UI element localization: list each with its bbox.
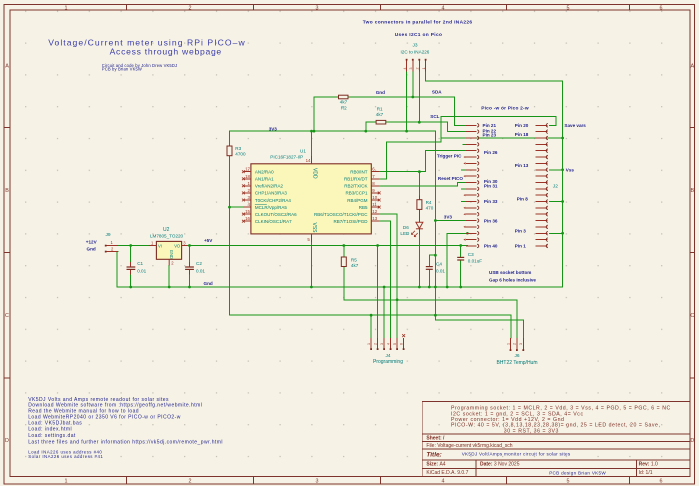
connector J6 DHT22 — [496, 338, 537, 366]
svg-text:Pin 40: Pin 40 — [484, 244, 498, 249]
svg-text:Load: settings.dat: Load: settings.dat — [28, 433, 76, 439]
net label pico pin texts left column — [483, 123, 498, 249]
svg-text:RB3/CCP1: RB3/CCP1 — [345, 191, 368, 196]
op-amp U1 PIC16F1827 body — [251, 148, 371, 234]
resistor R4 — [417, 200, 434, 211]
svg-text:D: D — [690, 438, 694, 444]
wire 3V3 rail — [230, 130, 436, 132]
svg-text:Reset PICO: Reset PICO — [438, 176, 463, 181]
svg-text:R4: R4 — [426, 200, 432, 205]
svg-text:PIC16F1827-I/P: PIC16F1827-I/P — [270, 154, 303, 159]
svg-text:Pin 20: Pin 20 — [515, 123, 529, 128]
svg-text:VDD: VDD — [311, 168, 317, 179]
svg-text:J3: J3 — [413, 43, 418, 49]
svg-text:Solar INA226 uses address #41: Solar INA226 uses address #41 — [28, 454, 103, 459]
svg-text:Pin 31: Pin 31 — [484, 184, 498, 189]
svg-text:1: 1 — [65, 5, 68, 11]
connector J9 power in — [86, 232, 118, 253]
svg-text:PCB by Brian VK5W: PCB by Brian VK5W — [102, 67, 142, 72]
svg-text:18: 18 — [245, 174, 250, 179]
wire C2 vertical — [189, 246, 191, 263]
svg-text:RB7/T1OSI/PGD: RB7/T1OSI/PGD — [333, 219, 368, 224]
wire C4 vertical — [429, 255, 435, 266]
connector J3 I2C — [401, 43, 430, 72]
svg-text:Last three files and further i: Last three files and further information… — [28, 439, 223, 445]
wire LED D6 cathode to ground rail — [418, 235, 420, 288]
wire U2 GND pin to ground rail — [168, 266, 170, 288]
capacitor C1 — [127, 261, 147, 275]
svg-text:11: 11 — [372, 202, 377, 207]
wire R1 left to 3V3 rail — [366, 122, 376, 131]
svg-text:RB5: RB5 — [359, 205, 368, 210]
svg-text:Programming: Programming — [373, 359, 403, 365]
title block — [422, 401, 690, 476]
svg-text:4k7: 4k7 — [340, 100, 348, 105]
svg-text:Size: A4: Size: A4 — [426, 462, 445, 468]
svg-text:5: 5 — [393, 343, 397, 345]
svg-text:4: 4 — [442, 5, 445, 11]
regulator U2 LM7805 — [149, 227, 188, 265]
svg-text:Load: index.html: Load: index.html — [28, 427, 72, 433]
svg-text:14: 14 — [306, 158, 311, 163]
svg-text:Id: 1/1: Id: 1/1 — [639, 470, 653, 476]
svg-text:13: 13 — [372, 216, 377, 221]
svg-text:30 = RST, 36 = 3V3: 30 = RST, 36 = 3V3 — [504, 428, 559, 434]
svg-text:R5: R5 — [351, 257, 357, 262]
svg-text:4k7: 4k7 — [376, 112, 384, 117]
svg-text:4: 4 — [442, 479, 445, 485]
svg-text:17: 17 — [245, 167, 250, 172]
wire MCLR bottom run to J6 pin1 — [230, 315, 512, 338]
wire R5 pullup top — [343, 246, 345, 258]
svg-text:Access through webpage: Access through webpage — [110, 47, 222, 57]
svg-text:CLKOUT/OSC2/RA6: CLKOUT/OSC2/RA6 — [255, 212, 297, 217]
svg-text:5: 5 — [567, 5, 570, 11]
svg-text:MCLR/Vpp/RA5: MCLR/Vpp/RA5 — [255, 205, 288, 210]
wire 3V3 vertical distribution — [435, 131, 523, 338]
svg-text:Vss: Vss — [566, 168, 575, 173]
svg-text:B: B — [690, 188, 694, 194]
wire IC pin7 RB1 up and right — [379, 142, 441, 179]
wire stubs left col rows 4 8 11 13 — [463, 143, 470, 145]
LED D6 — [412, 222, 423, 237]
svg-text:RB2/TX/CK: RB2/TX/CK — [344, 184, 367, 189]
svg-text:Gnd: Gnd — [376, 90, 385, 95]
wire Pico right col row18 to gnd bus — [550, 232, 563, 234]
pin end ticks left column — [463, 156, 465, 241]
svg-text:B: B — [5, 188, 9, 194]
svg-text:SCL: SCL — [430, 114, 439, 119]
wire SCL net upper run to Pico pin20 — [441, 116, 556, 141]
svg-text:A: A — [5, 64, 9, 70]
svg-text:D6: D6 — [403, 225, 409, 230]
svg-text:Pin 18: Pin 18 — [515, 132, 529, 137]
svg-text:Rev: 1.0: Rev: 1.0 — [639, 462, 658, 468]
svg-text:C: C — [690, 313, 694, 319]
svg-text:VSS: VSS — [311, 223, 317, 234]
wire C1 vertical — [130, 246, 132, 263]
svg-text:J6: J6 — [514, 353, 519, 359]
svg-text:Pico -w or Pico 2-w: Pico -w or Pico 2-w — [481, 105, 529, 111]
svg-text:3: 3 — [380, 343, 384, 345]
wire Pico right col row8 to gnd bus — [550, 169, 563, 171]
svg-text:3: 3 — [316, 5, 319, 11]
svg-text:3: 3 — [519, 343, 523, 345]
svg-text:Save vars: Save vars — [564, 123, 586, 128]
svg-text:U2: U2 — [163, 227, 170, 233]
svg-text:Pin 33: Pin 33 — [484, 199, 498, 204]
svg-text:A: A — [690, 64, 694, 70]
U1 left pin stubs — [244, 172, 251, 222]
svg-text:R1: R1 — [377, 107, 383, 112]
svg-text:RB4/PGM: RB4/PGM — [347, 198, 368, 203]
wire VSS from IC pin5 to ground rail — [310, 242, 312, 287]
svg-text:Pin 8: Pin 8 — [517, 196, 528, 201]
svg-text:I2C to INA226: I2C to INA226 — [401, 49, 430, 54]
svg-text:2: 2 — [189, 479, 192, 485]
svg-text:3: 3 — [409, 68, 413, 70]
svg-text:Pin 3: Pin 3 — [515, 228, 526, 233]
svg-text:470: 470 — [426, 206, 434, 211]
svg-text:RB0/INT: RB0/INT — [350, 170, 368, 175]
svg-text:T0CKI/CHP2/RA4: T0CKI/CHP2/RA4 — [255, 198, 292, 203]
U1 pin numbers — [245, 158, 311, 242]
svg-text:R2: R2 — [341, 105, 347, 110]
wire J3 pin3 drop to SDA — [412, 72, 414, 98]
svg-text:2: 2 — [373, 343, 377, 345]
wire R4 top — [418, 172, 420, 196]
capacitor C4 — [426, 262, 446, 274]
capacitor C2 — [185, 261, 205, 275]
wire J3 pin4 drop to 3V3 rail — [406, 72, 408, 132]
svg-text:2: 2 — [189, 5, 192, 11]
svg-text:Pin 26: Pin 26 — [484, 150, 498, 155]
U1 right pin stubs — [371, 172, 379, 222]
svg-text:0.01uF: 0.01uF — [468, 258, 482, 263]
svg-text:0.01: 0.01 — [196, 269, 205, 274]
svg-text:1: 1 — [506, 343, 510, 345]
svg-text:VI: VI — [158, 243, 162, 248]
svg-text:Gnd: Gnd — [87, 247, 96, 252]
wire Reset PICO from IC pin8 to Pico pin30 — [379, 182, 467, 185]
svg-text:U1: U1 — [300, 148, 306, 153]
bottom-left software notes text — [28, 397, 223, 459]
svg-text:Download Webmite software from: Download Webmite software from :https://… — [28, 402, 202, 408]
svg-text:SDA: SDA — [432, 90, 442, 95]
svg-text:Pin 13: Pin 13 — [515, 163, 529, 168]
svg-text:2: 2 — [513, 343, 517, 345]
wire row3 run between socket columns — [441, 137, 562, 139]
svg-text:0.01: 0.01 — [137, 269, 146, 274]
svg-text:Gap 6 holes inclusive: Gap 6 holes inclusive — [489, 277, 536, 282]
svg-text:C2: C2 — [196, 261, 202, 266]
svg-text:+12V: +12V — [86, 240, 98, 245]
connector J4 programming — [367, 334, 405, 365]
svg-text:KiCad E.D.A. 9.0.7: KiCad E.D.A. 9.0.7 — [426, 470, 468, 476]
note: two connectors comment — [363, 19, 473, 38]
svg-text:LED: LED — [400, 231, 410, 236]
svg-text:BHT22 Temp/Hum: BHT22 Temp/Hum — [496, 360, 537, 366]
svg-text:Two connectors in parallel for: Two connectors in parallel for 2nd INA22… — [363, 19, 473, 25]
wire SDA from R2 to Pico pin21 — [348, 97, 468, 125]
U1 top VDD pin and bottom VSS pin stubs — [310, 156, 312, 242]
wire J4 pin2 Vdd drop — [377, 246, 379, 339]
wire J4 pin3 ground drop — [383, 287, 385, 338]
svg-text:0.01: 0.01 — [436, 268, 445, 273]
svg-text:3V3: 3V3 — [269, 126, 278, 131]
wire VDD from 3V3 rail to IC pin14 — [311, 131, 313, 156]
svg-text:15: 15 — [245, 209, 250, 214]
wire +5V rail from U2 VO to Pico pin40 — [188, 245, 468, 247]
svg-text:VK5DJ Volt/Amps monitor circui: VK5DJ Volt/Amps monitor circuit for sola… — [462, 451, 571, 456]
svg-text:AN2/RA0: AN2/RA0 — [255, 170, 274, 175]
svg-text:Sheet: /: Sheet: / — [426, 435, 445, 441]
svg-text:R3: R3 — [235, 146, 241, 151]
svg-text:12: 12 — [372, 209, 377, 214]
svg-text:4: 4 — [386, 343, 390, 345]
svg-text:LM7805_TO220: LM7805_TO220 — [150, 233, 184, 238]
svg-text:10: 10 — [372, 195, 377, 200]
svg-text:CHP1/AN3/RA3: CHP1/AN3/RA3 — [255, 191, 288, 196]
svg-text:Load WebmiteRP2040 or 2350 V6: Load WebmiteRP2040 or 2350 V6 for PICO-w… — [28, 414, 181, 420]
svg-text:CLKIN/OSC1/RA7: CLKIN/OSC1/RA7 — [255, 219, 292, 224]
resistor R4 and LED D6 pin stubs — [418, 196, 420, 235]
wire +12V from J9 pin1 to U2 VI — [118, 245, 149, 247]
svg-text:C1: C1 — [137, 261, 143, 266]
svg-text:Title:: Title: — [426, 452, 441, 459]
wire 3V3 to Pico pin36 — [435, 220, 467, 222]
wire R5 bottom to J6 pin2 — [344, 267, 517, 339]
svg-text:5: 5 — [567, 479, 570, 485]
wire MCLR to IC pin 4 — [230, 206, 244, 208]
wire J3 pin1 to ground bus — [426, 72, 563, 81]
svg-text:VO: VO — [174, 243, 180, 248]
svg-text:J2: J2 — [553, 183, 558, 189]
wire PGD from IC pin13 to J4 pin4 — [379, 221, 390, 338]
svg-text:GND: GND — [169, 250, 174, 259]
svg-text:4k7: 4k7 — [351, 263, 359, 268]
svg-text:J9: J9 — [106, 232, 111, 238]
resistor R1 — [376, 107, 386, 124]
wire ground rail — [117, 81, 563, 287]
svg-text:Pin 21: Pin 21 — [483, 123, 497, 128]
svg-text:2: 2 — [416, 68, 420, 70]
svg-text:6: 6 — [399, 343, 403, 345]
svg-text:Gnd: Gnd — [204, 281, 213, 286]
wire Pico right col row13 to gnd bus — [550, 201, 563, 203]
resistor R3 — [227, 146, 246, 157]
svg-text:Pin 36: Pin 36 — [484, 218, 498, 223]
svg-text:RB6/T1OSCO/T1CKI/PGC: RB6/T1OSCO/T1CKI/PGC — [314, 212, 368, 217]
net label pico pin texts right column — [515, 123, 529, 249]
svg-text:Pin 1: Pin 1 — [515, 244, 526, 249]
U1 no-connect x marks — [242, 170, 381, 222]
svg-text:+5V: +5V — [204, 238, 213, 243]
wire PGC from IC pin12 to J4 pin5 — [379, 214, 397, 338]
wire R2 left to 3V3 rail — [314, 97, 339, 131]
wire J4 pin1 drop — [370, 315, 372, 338]
connector J2 pico socket left column pins — [466, 125, 476, 246]
wire J3 pin2 drop to SCL — [418, 72, 420, 123]
svg-text:Uses I2C1 on Pico: Uses I2C1 on Pico — [395, 32, 443, 38]
svg-text:Trigger PIC: Trigger PIC — [437, 154, 462, 159]
svg-text:File: Voltage-current vk5rmg.k: File: Voltage-current vk5rmg.kicad_sch — [426, 443, 512, 449]
sheet title text — [48, 37, 246, 56]
svg-text:C: C — [5, 313, 9, 319]
connector J2 pico socket right column pins — [536, 125, 548, 246]
capacitor C3 — [457, 252, 482, 263]
svg-text:4: 4 — [403, 68, 407, 70]
wire C3 vertical — [460, 246, 462, 258]
svg-text:D: D — [5, 438, 9, 444]
svg-text:C4: C4 — [436, 262, 442, 267]
wire SCL from R1 to Pico pin22 — [386, 122, 468, 131]
svg-text:PCB design Brian VK5W: PCB design Brian VK5W — [549, 471, 606, 476]
wire J9 pin2 to ground rail — [117, 252, 118, 288]
svg-text:C3: C3 — [468, 252, 474, 257]
U1 pin names — [255, 170, 297, 225]
svg-text:3V3: 3V3 — [444, 214, 453, 219]
svg-text:RB1/RX/DT: RB1/RX/DT — [344, 177, 368, 182]
svg-text:1: 1 — [65, 479, 68, 485]
svg-text:Date: 3 Nov 2025: Date: 3 Nov 2025 — [480, 462, 520, 468]
svg-text:6: 6 — [660, 479, 663, 485]
svg-text:3: 3 — [316, 479, 319, 485]
svg-text:6: 6 — [660, 5, 663, 11]
svg-text:USB socket bottom: USB socket bottom — [489, 270, 531, 275]
resistor R5 — [341, 257, 358, 268]
svg-text:1: 1 — [422, 68, 426, 70]
svg-text:Vref/AN2/RA2: Vref/AN2/RA2 — [255, 184, 284, 189]
svg-text:16: 16 — [245, 216, 250, 221]
wire R3 top from 3V3 rail — [229, 131, 231, 146]
svg-text:4700: 4700 — [235, 152, 246, 157]
wire RB0 to LED branch and Trigger PIC to Pico pin25 — [379, 151, 467, 172]
svg-text:Pin 23: Pin 23 — [483, 133, 497, 138]
resistor R2 — [339, 95, 349, 110]
svg-text:1: 1 — [367, 343, 371, 345]
wire MCLR net R3 bottom to IC pin4 and down — [229, 156, 231, 316]
svg-text:AN1/RA1: AN1/RA1 — [255, 177, 274, 182]
wire Pico pin38 row to ground — [447, 233, 467, 287]
